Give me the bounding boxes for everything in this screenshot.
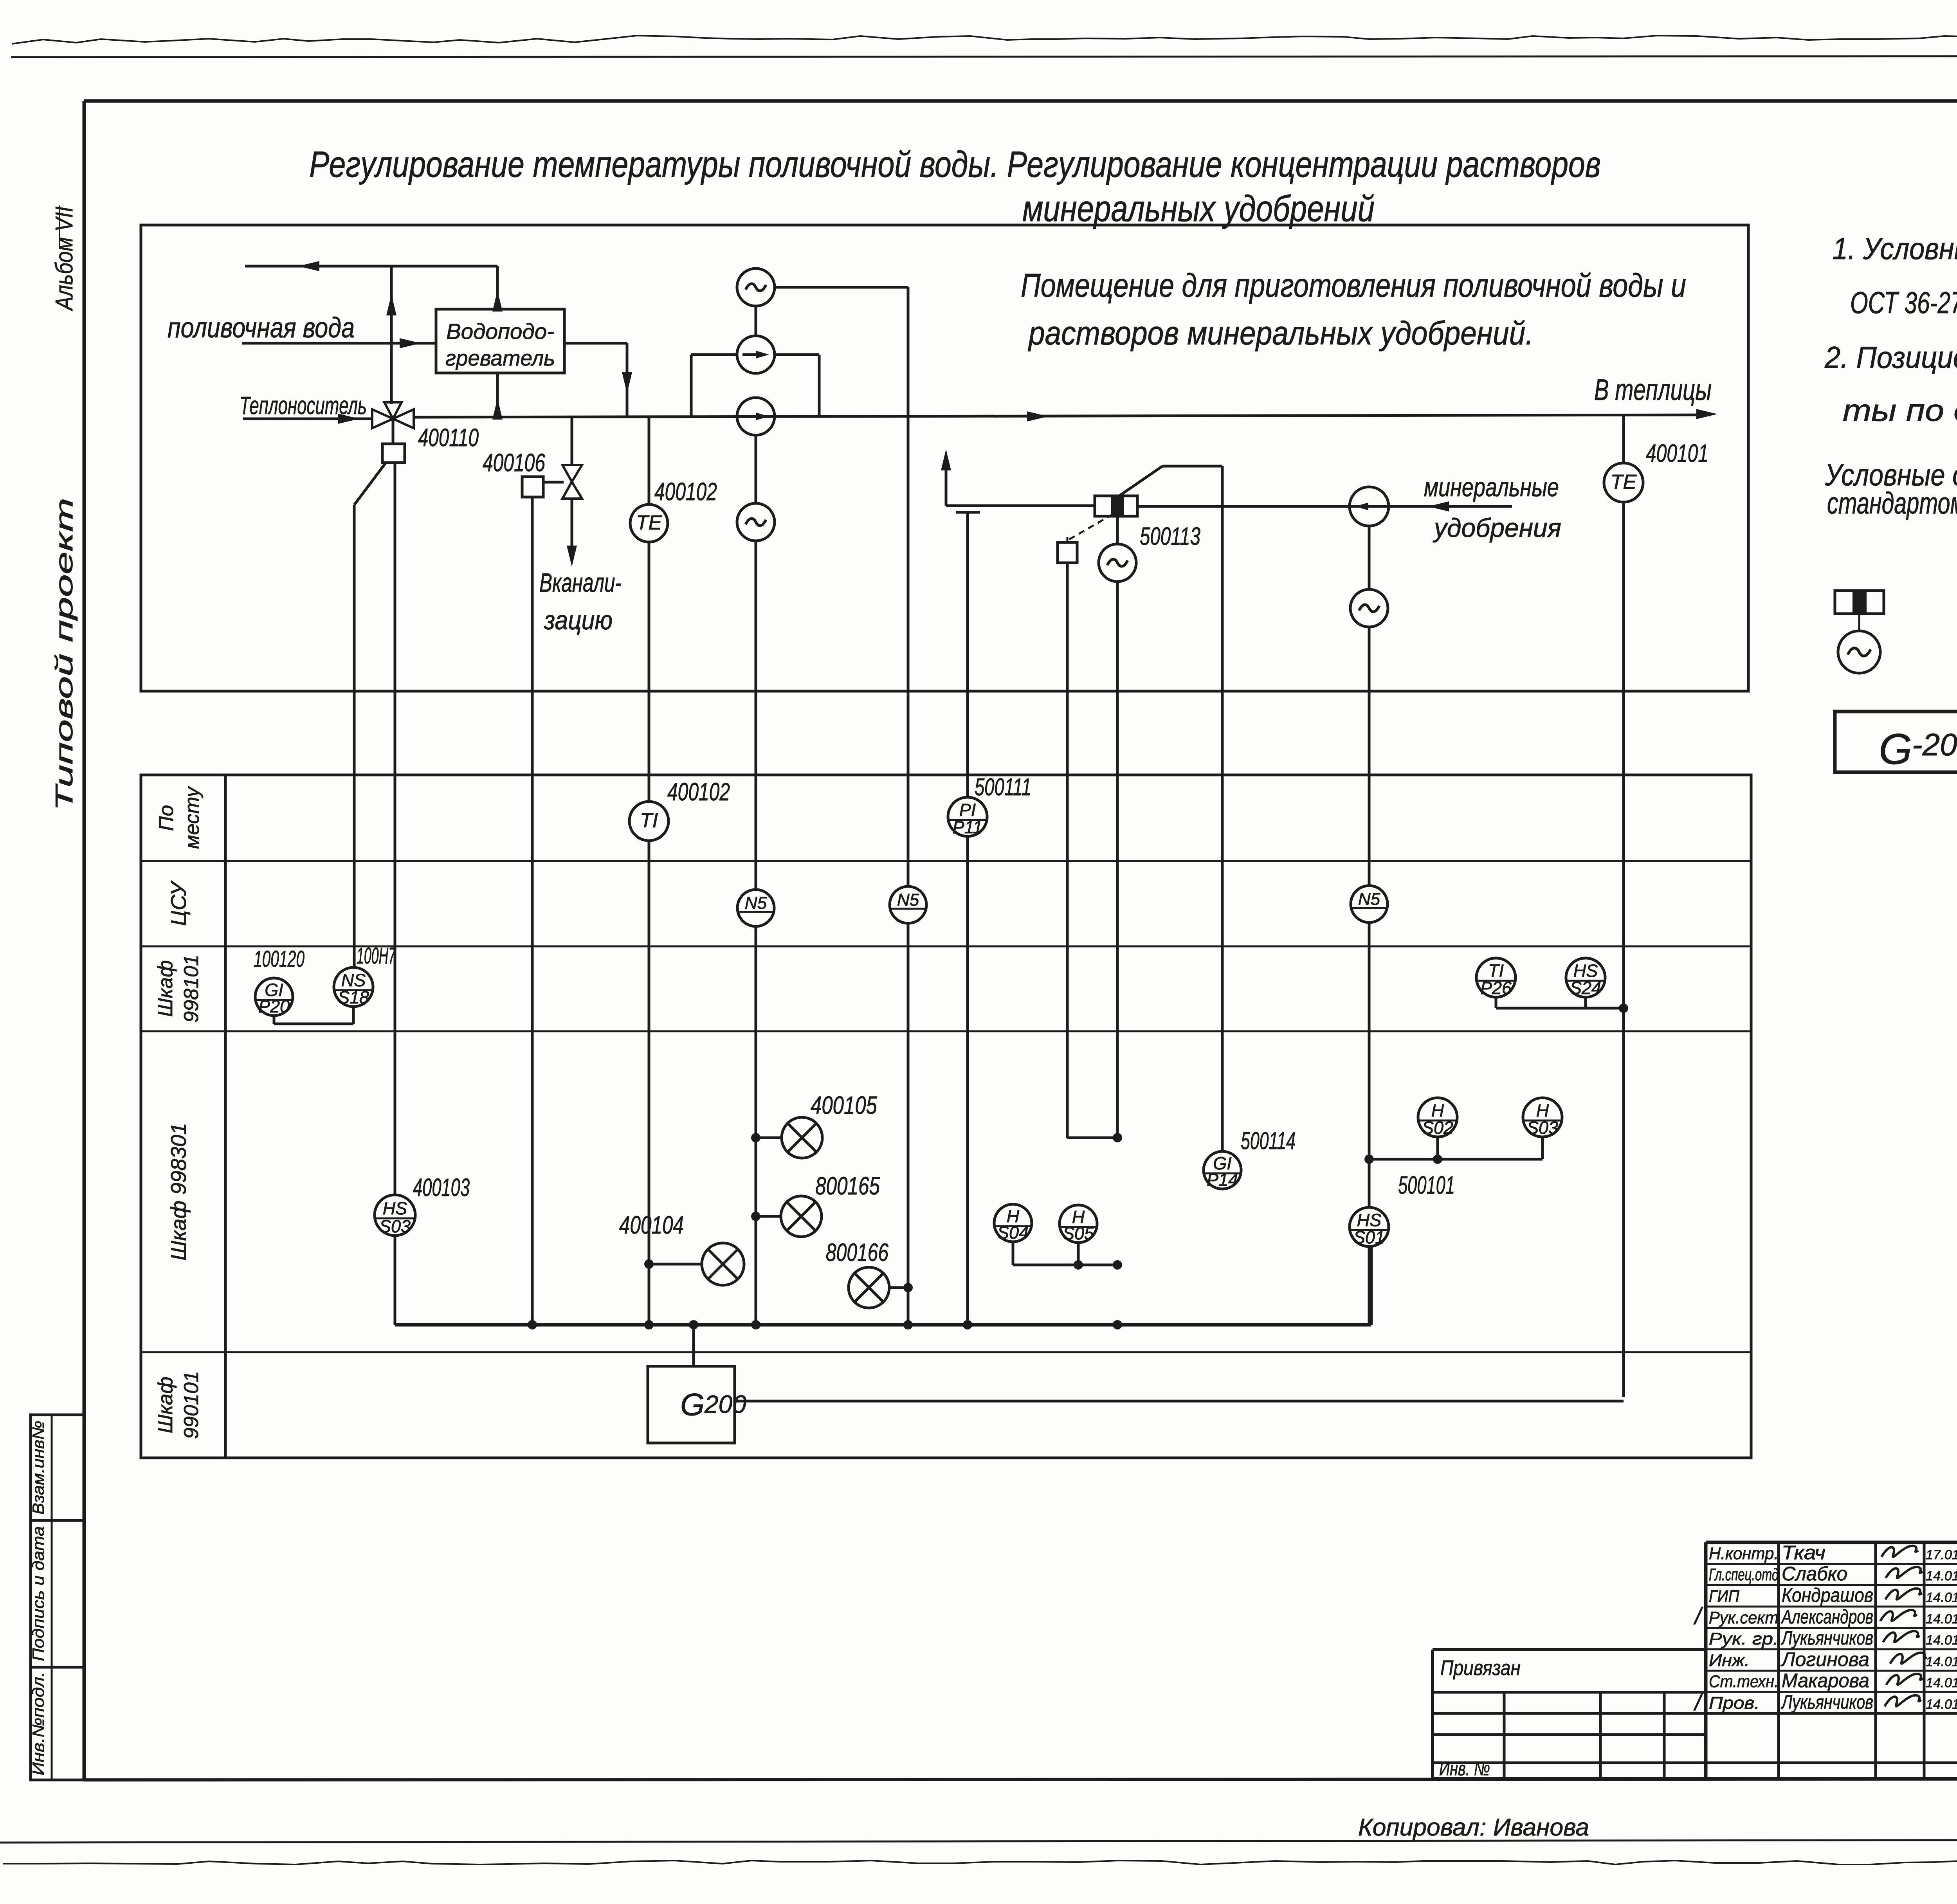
- instrument circle TI: [629, 802, 669, 841]
- heater outlet: [564, 342, 627, 345]
- bypass loop right leg: [818, 355, 821, 416]
- svg-text:По: По: [155, 805, 178, 831]
- svg-text:S02: S02: [1422, 1118, 1453, 1138]
- svg-text:17.01.86: 17.01.86: [1926, 1547, 1957, 1562]
- svg-text:P11: P11: [953, 817, 983, 837]
- title block top: [1706, 1541, 1957, 1544]
- svg-text:ГИП: ГИП: [1709, 1587, 1739, 1606]
- svg-text:P20: P20: [258, 996, 290, 1016]
- svg-text:500114: 500114: [1241, 1128, 1296, 1155]
- S02/S03 connector: [1436, 1137, 1439, 1159]
- svg-text:998101: 998101: [180, 955, 203, 1023]
- row line 4: [141, 1351, 1751, 1353]
- lamp circle (X): [702, 1243, 744, 1285]
- svg-text:Слабко: Слабко: [1782, 1563, 1847, 1585]
- svg-text:ЦСУ: ЦСУ: [166, 880, 191, 926]
- solenoid 400106: [522, 477, 543, 497]
- svg-text:100120: 100120: [254, 946, 305, 972]
- svg-text:Инв.№подл.: Инв.№подл.: [29, 1672, 47, 1776]
- P26/S24 connector: [1495, 997, 1497, 1008]
- svg-text:Шкаф 998301: Шкаф 998301: [166, 1123, 191, 1261]
- actuator wire straight down: [394, 463, 396, 1195]
- svg-text:14.01.86: 14.01.86: [1926, 1633, 1957, 1648]
- svg-text:месту: месту: [181, 786, 204, 849]
- motor (~) symbol: [1838, 631, 1880, 673]
- svg-text:Логинова: Логинова: [1780, 1648, 1869, 1670]
- piston-motor link: [1116, 516, 1119, 544]
- valve actuator 400110: [382, 444, 405, 463]
- svg-text:400105: 400105: [811, 1091, 877, 1119]
- svg-text:Теплоноситель: Теплоноситель: [240, 391, 367, 420]
- svg-text:Александров: Александров: [1781, 1606, 1873, 1628]
- piston 500113: [1095, 496, 1137, 516]
- signature table rows: [1706, 1563, 1957, 1565]
- instrument circle HS/S24: [1566, 958, 1605, 997]
- instrument circle HS/S03: [375, 1195, 415, 1236]
- motor wire down to cabinet: [1368, 627, 1371, 885]
- svg-text:Лукьянчиков: Лукьянчиков: [1781, 1627, 1873, 1649]
- svg-text:Пров.: Пров.: [1709, 1693, 1760, 1713]
- svg-text:удобрения: удобрения: [1433, 513, 1561, 543]
- svg-text:G: G: [680, 1387, 705, 1422]
- svg-text:S24: S24: [1570, 978, 1601, 998]
- main supply line: [414, 415, 1710, 417]
- motor-pump link: [755, 306, 757, 336]
- PI wire down: [966, 836, 969, 1325]
- svg-text:500101: 500101: [1398, 1171, 1455, 1199]
- pump-motor link: [1368, 526, 1371, 589]
- svg-text:Водоподо-: Водоподо-: [446, 319, 554, 344]
- dashed link: [1069, 513, 1115, 539]
- G200 stem: [692, 1325, 695, 1366]
- torn top edge: [12, 36, 1957, 44]
- piston discharge diagonal: [1119, 466, 1162, 496]
- svg-text:S01: S01: [1353, 1227, 1385, 1247]
- heat medium line: [243, 418, 372, 420]
- legend G200 box: [1835, 712, 1957, 772]
- motor (~) symbol: [737, 503, 775, 541]
- instrument circle PI/P11: [948, 797, 987, 836]
- drain pipe down: [571, 499, 573, 548]
- G200 output wire: [735, 1400, 1624, 1403]
- svg-text:Ткач: Ткач: [1782, 1542, 1825, 1564]
- svg-text:14.01.86: 14.01.86: [1926, 1569, 1957, 1583]
- instrument circle TE: [1604, 463, 1643, 502]
- motor wire to cabinet: [755, 541, 757, 889]
- svg-text:800166: 800166: [826, 1238, 888, 1266]
- junction TE401 wire: [1619, 1003, 1628, 1013]
- svg-text:TE: TE: [1611, 471, 1637, 494]
- svg-text:В теплицы: В теплицы: [1594, 373, 1712, 407]
- fertilizer line: [1137, 505, 1512, 508]
- svg-text:стандартом.: стандартом.: [1827, 486, 1957, 520]
- HS/S03 wire to bus: [394, 1236, 396, 1325]
- row line 2: [141, 946, 1751, 947]
- pump circle with arrow: [737, 336, 775, 373]
- svg-text:400102: 400102: [654, 477, 717, 506]
- instrument circle H/S05: [1060, 1205, 1097, 1243]
- svg-text:N5: N5: [1358, 890, 1380, 909]
- lamp circle (X): [782, 1117, 822, 1158]
- svg-text:14.01.86: 14.01.86: [1926, 1612, 1957, 1627]
- svg-text:N5: N5: [745, 893, 767, 913]
- motor (~) symbol: [737, 268, 775, 306]
- HS/S01 wire to bus: [1368, 1247, 1371, 1325]
- water heater box: [436, 309, 564, 373]
- irrigation water inlet line: [242, 342, 436, 345]
- svg-text:S03: S03: [1527, 1118, 1558, 1138]
- svg-text:Копировал: Иванова: Копировал: Иванова: [1358, 1814, 1589, 1841]
- instrument circle NS/S18: [334, 967, 373, 1007]
- return water line: [245, 265, 497, 268]
- svg-text:990101: 990101: [180, 1371, 203, 1439]
- svg-text:14.01.86: 14.01.86: [1926, 1590, 1957, 1605]
- G200 box: [648, 1366, 735, 1443]
- 400106 stub: [543, 481, 564, 484]
- svg-text:500111: 500111: [975, 774, 1031, 801]
- svg-text:S03: S03: [379, 1216, 411, 1236]
- svg-text:минеральные: минеральные: [1424, 472, 1559, 502]
- svg-text:Привязан: Привязан: [1440, 1656, 1521, 1680]
- TI wire down: [648, 841, 651, 1325]
- svg-text:растворов минеральных: растворов минеральных удобрений.: [1027, 315, 1534, 351]
- discharge shelf: [1162, 465, 1222, 468]
- positioner wire down: [1066, 563, 1069, 1138]
- TE401 wire down: [1622, 502, 1625, 1397]
- bus right corner up: [1370, 1247, 1373, 1325]
- svg-text:Подпись и дата: Подпись и дата: [29, 1526, 47, 1661]
- svg-text:400104: 400104: [619, 1211, 684, 1239]
- instrument circle TI/P26: [1476, 958, 1516, 997]
- TE 400101 tap: [1622, 415, 1625, 464]
- svg-text:S04: S04: [997, 1223, 1029, 1243]
- svg-text:зацию: зацию: [544, 605, 613, 635]
- svg-text:400103: 400103: [413, 1173, 470, 1201]
- torn bottom edge: [3, 1861, 1957, 1864]
- svg-text:HS: HS: [383, 1198, 407, 1218]
- NS circle: [737, 890, 774, 926]
- svg-text:500113: 500113: [1140, 522, 1200, 550]
- svg-text:G: G: [1879, 725, 1912, 773]
- svg-text:Ст.техн.: Ст.техн.: [1709, 1672, 1779, 1691]
- svg-text:Инж.: Инж.: [1709, 1651, 1750, 1670]
- svg-text:минеральных удобрений: минеральных удобрений: [1022, 188, 1375, 229]
- signal bus: [395, 1323, 1371, 1327]
- TE 400102 tap: [648, 416, 651, 505]
- svg-text:Альбом VII: Альбом VII: [51, 207, 78, 312]
- svg-text:400101: 400101: [1646, 439, 1708, 467]
- svg-text:ОСТ 36-27-77.: ОСТ 36-27-77.: [1850, 285, 1957, 320]
- instrument circle HS/S01: [1350, 1207, 1389, 1247]
- svg-text:-200: -200: [1912, 727, 1957, 762]
- svg-text:Гл.спец.отд: Гл.спец.отд: [1709, 1565, 1779, 1584]
- lamp circle (X): [849, 1267, 889, 1308]
- instrument circle H/S02: [1418, 1098, 1457, 1137]
- valve stem: [392, 419, 395, 444]
- svg-text:2. Позиционные обозначен: 2. Позиционные обозначения приборов прин…: [1824, 340, 1957, 375]
- Помещение box: [141, 225, 1748, 691]
- drain valve bowtie: [562, 465, 582, 482]
- NS circle: [890, 886, 926, 923]
- NS/S18 - GI/P20 U link: [273, 1015, 276, 1024]
- bus junction dots: [528, 1320, 537, 1329]
- left margin boxes: [31, 1415, 84, 1520]
- svg-text:14.01.86: 14.01.86: [1926, 1654, 1957, 1669]
- instrument circle GI/P14: [1204, 1151, 1241, 1189]
- pump circle with arrow: [1350, 487, 1389, 526]
- heater bottom riser: [496, 373, 499, 417]
- bypass loop top left: [691, 353, 737, 356]
- motor1 wire right: [775, 286, 908, 289]
- svg-text:поливочная вода: поливочная вода: [168, 312, 355, 344]
- svg-text:P26: P26: [1480, 978, 1512, 998]
- svg-text:200: 200: [704, 1390, 746, 1418]
- svg-text:14.01.86: 14.01.86: [1926, 1697, 1957, 1712]
- heater top riser: [496, 266, 499, 309]
- table outer: [141, 775, 1751, 1458]
- svg-text:100Н7: 100Н7: [357, 943, 396, 969]
- svg-text:S05: S05: [1063, 1223, 1094, 1243]
- suction shelf: [946, 504, 1096, 507]
- svg-text:400110: 400110: [418, 423, 479, 452]
- table label column: [224, 775, 227, 1458]
- svg-text:14.01.86: 14.01.86: [1926, 1675, 1957, 1690]
- drawing frame: [84, 99, 1957, 103]
- positioner square 500113: [1058, 542, 1077, 563]
- svg-text:800165: 800165: [815, 1172, 880, 1200]
- wire x2320 down: [907, 287, 910, 885]
- svg-text:Кондрашов: Кондрашов: [1782, 1584, 1873, 1606]
- bypass riser to return: [390, 266, 393, 404]
- bypass loop top right: [774, 353, 819, 356]
- legend piston symbol: [1835, 591, 1884, 614]
- positioner wire jog: [1067, 1137, 1117, 1139]
- pump circle with arrow: [737, 398, 775, 435]
- instrument circle GI/P20: [255, 978, 293, 1016]
- svg-text:Шкаф: Шкаф: [154, 1377, 177, 1434]
- svg-text:TI: TI: [640, 809, 658, 832]
- actuator wire slant: [354, 463, 386, 505]
- svg-text:Н.контр.: Н.контр.: [1709, 1544, 1779, 1563]
- svg-text:P14: P14: [1207, 1170, 1238, 1190]
- lamp circle (X): [781, 1196, 822, 1237]
- svg-text:Взам.инв№: Взам.инв№: [29, 1421, 47, 1515]
- svg-text:400102: 400102: [667, 778, 730, 806]
- motor wire down: [1116, 582, 1119, 1138]
- instrument circle TE: [630, 504, 668, 542]
- NS circle: [1351, 886, 1388, 922]
- svg-text:Рук. гр.: Рук. гр.: [1709, 1629, 1779, 1648]
- svg-text:греватель: греватель: [445, 346, 555, 370]
- TE wire down: [648, 542, 651, 802]
- svg-text:TE: TE: [636, 512, 663, 534]
- NS3 wire down: [1368, 922, 1371, 1207]
- 3-way valve 400110: [372, 409, 393, 428]
- motor (~) symbol: [1350, 589, 1388, 627]
- svg-text:ты по документации: ты по документации ГДР.: [1843, 393, 1957, 427]
- tap stem down: [966, 512, 969, 797]
- svg-text:1. Условные обозначения: 1. Условные обозначения выполнены соглас…: [1833, 231, 1957, 266]
- suction arrow to main: [945, 455, 948, 506]
- title block left extension: [1433, 1648, 1706, 1651]
- discharge drop wire: [1221, 466, 1224, 1151]
- svg-text:Регулирование температуры: Регулирование температуры поливочной вод…: [309, 144, 1601, 185]
- svg-text:Макарова: Макарова: [1782, 1670, 1869, 1691]
- NS1 wire down: [755, 926, 757, 1325]
- svg-text:Инв. №: Инв. №: [1439, 1758, 1490, 1780]
- svg-text:Лукьянчиков: Лукьянчиков: [1781, 1691, 1873, 1713]
- svg-text:Помещение для приготовл: Помещение для приготовления поливочной в…: [1021, 267, 1686, 304]
- bypass pump loop left leg: [690, 355, 693, 416]
- svg-text:Типовой проект: Типовой проект: [51, 498, 78, 811]
- svg-text:S18: S18: [338, 987, 369, 1007]
- bottom sheet line: [0, 1839, 1957, 1843]
- top sheet line: [11, 56, 1957, 57]
- svg-text:N5: N5: [897, 890, 919, 910]
- S04/S05 connector: [1012, 1242, 1015, 1265]
- svg-text:Вканали-: Вканали-: [539, 568, 622, 598]
- motor (~) symbol: [1099, 544, 1136, 582]
- row line 3: [141, 1030, 1751, 1032]
- signature table columns: [1777, 1542, 1780, 1779]
- wire x2320 lower: [907, 923, 910, 1325]
- instrument circle H/S03: [1523, 1098, 1562, 1137]
- svg-text:400106: 400106: [483, 449, 545, 477]
- svg-text:Шкаф: Шкаф: [154, 960, 177, 1017]
- actuator wire slant vertical: [353, 505, 356, 967]
- svg-text:Рук.сект: Рук.сект: [1709, 1608, 1779, 1627]
- row line 1: [141, 860, 1751, 862]
- instrument circle H/S04: [994, 1204, 1032, 1242]
- wire 400106 down: [531, 497, 534, 1325]
- extension rows: [1433, 1691, 1706, 1694]
- link pump to motor below: [755, 435, 757, 503]
- pressure tap T-bar: [956, 511, 980, 514]
- drain valve stem from main: [571, 417, 573, 465]
